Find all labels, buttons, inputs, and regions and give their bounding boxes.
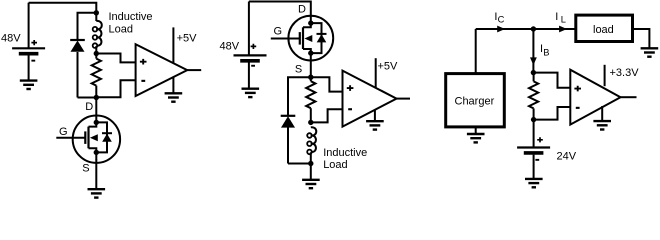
ground (charger) <box>475 127 477 134</box>
wire to op-amp - input <box>534 107 571 120</box>
op-amp U2 <box>343 71 397 127</box>
node junction mid <box>94 51 99 56</box>
battery B1 48V <box>28 3 30 49</box>
svg-text:Load: Load <box>109 23 133 35</box>
ground (battery B3) <box>525 179 543 187</box>
ground (battery B1) <box>20 81 38 89</box>
wire diode to bottom node <box>288 163 311 165</box>
node junction rail <box>531 26 536 31</box>
wire IB branch <box>532 29 534 73</box>
wire source to ground <box>95 160 97 190</box>
svg-text:+5V: +5V <box>378 60 399 72</box>
wire node D to MOSFET drain <box>95 98 97 117</box>
ground (load) <box>641 48 659 56</box>
arrow current IB <box>530 57 537 65</box>
wire top rail <box>249 2 311 16</box>
wire to op-amp - input <box>96 80 135 97</box>
diode D2 <box>281 116 296 128</box>
node resistor bottom <box>308 120 313 125</box>
resistor R1 <box>95 54 97 59</box>
wire to ground <box>310 164 312 180</box>
wire top rail <box>476 28 576 30</box>
node S junction <box>308 75 313 80</box>
svg-text:Inductive: Inductive <box>323 147 367 159</box>
wire op-amp output <box>621 96 637 98</box>
wire diode branch <box>288 77 311 116</box>
svg-text:48V: 48V <box>220 41 240 53</box>
ground (op-amp U3) <box>601 106 603 121</box>
svg-text:B: B <box>543 47 549 57</box>
svg-text:Load: Load <box>323 159 347 171</box>
transistor Q2 MOSFET <box>288 16 333 61</box>
op-amp U3 <box>570 70 620 125</box>
diode D1 <box>70 40 85 52</box>
transistor Q1 MOSFET <box>73 116 120 163</box>
svg-text:D: D <box>298 3 306 15</box>
svg-text:+5V: +5V <box>177 32 198 44</box>
svg-text:48V: 48V <box>1 33 21 45</box>
op-amp U1 <box>136 44 188 96</box>
ground (battery B2) <box>242 89 260 97</box>
wire +3.3V supply <box>604 65 606 86</box>
resistor R2 <box>310 77 312 81</box>
ground (Q1 source) <box>88 189 106 197</box>
wire +5V supply <box>172 27 174 62</box>
node sense top <box>531 70 536 75</box>
charger block <box>446 74 505 127</box>
svg-text:L: L <box>561 15 566 25</box>
wire op-amp output <box>187 69 201 71</box>
node bottom junction <box>308 161 313 166</box>
arrow current IL <box>559 26 567 33</box>
arrow current IC <box>497 26 505 33</box>
svg-text:S: S <box>82 162 89 174</box>
svg-text:24V: 24V <box>557 151 577 163</box>
inductor L2 <box>307 127 316 154</box>
wire charger to rail <box>475 29 477 74</box>
wire diode branch <box>78 13 97 40</box>
svg-text:C: C <box>498 14 505 24</box>
svg-text:+3.3V: +3.3V <box>610 67 640 79</box>
svg-text:G: G <box>59 126 68 138</box>
svg-text:S: S <box>295 64 302 76</box>
wire top rail <box>29 3 97 13</box>
wire op-amp output <box>397 98 411 100</box>
svg-text:Inductive: Inductive <box>109 11 153 23</box>
ground (op-amp U1) <box>172 76 174 93</box>
wire to op-amp + input <box>311 77 343 91</box>
load block <box>576 15 633 41</box>
ground (middle) <box>302 180 320 188</box>
inductor L1 <box>95 13 97 21</box>
ground (op-amp U2) <box>374 110 376 121</box>
wire to op-amp + input <box>533 73 570 88</box>
svg-text:Charger: Charger <box>455 96 495 108</box>
wire to op-amp - input <box>311 109 343 122</box>
svg-text:I: I <box>555 11 558 23</box>
svg-text:G: G <box>274 25 283 37</box>
battery B2 48V <box>248 2 250 56</box>
wire to op-amp + input <box>96 54 135 63</box>
node junction top <box>94 10 99 15</box>
node D <box>94 95 99 100</box>
node sense bottom <box>531 117 536 122</box>
svg-text:load: load <box>593 24 614 36</box>
resistor R3 sense <box>533 73 535 82</box>
svg-text:D: D <box>85 101 93 113</box>
wire load to ground <box>633 29 650 48</box>
wire diode to node D <box>78 97 97 99</box>
wire MOSFET source to node <box>310 61 312 77</box>
battery B3 24V <box>533 120 535 148</box>
wire +5V supply <box>375 58 377 88</box>
